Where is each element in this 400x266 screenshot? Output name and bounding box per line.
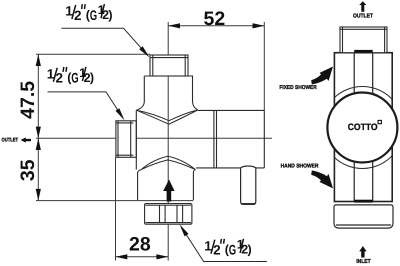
outlet flow arrow front view <box>21 137 32 142</box>
svg-text:35: 35 <box>17 159 39 181</box>
side view body <box>334 53 392 202</box>
fixed shower arrow <box>311 67 333 85</box>
svg-text:28: 28 <box>129 234 151 256</box>
svg-text:INLET: INLET <box>356 259 371 265</box>
seam tick top side view <box>354 50 373 53</box>
svg-text:52: 52 <box>204 8 226 30</box>
top hex nut front view <box>150 55 188 76</box>
outlet port front view <box>116 110 136 169</box>
COTTO registered square <box>378 120 381 123</box>
hand shower arrow <box>311 170 333 188</box>
lever bottom emphasis <box>241 203 255 205</box>
dimension 35 <box>37 138 39 200</box>
valve bonnet cap front view <box>136 76 197 110</box>
seam tick bottom side view <box>354 200 373 203</box>
knob trim ring side view <box>321 87 400 169</box>
lever front view <box>241 166 256 204</box>
knob face side view <box>327 93 397 163</box>
svg-text:OUTLET: OUTLET <box>353 13 373 20</box>
svg-text:OUTLET: OUTLET <box>2 138 19 144</box>
wire horizontal centerline front view <box>36 137 272 139</box>
wire vertical centerline front view <box>167 22 169 261</box>
side view top port <box>340 27 387 53</box>
dimension 28 <box>116 158 169 261</box>
body lower column front view <box>138 172 194 200</box>
svg-text:FIXED SHOWER: FIXED SHOWER <box>279 85 316 91</box>
svg-text:47.5: 47.5 <box>17 81 39 119</box>
inlet arrow side view <box>359 246 366 258</box>
outlet arrow side view <box>359 1 366 12</box>
bottom nut front view <box>145 204 192 225</box>
side view bottom nut <box>334 205 393 228</box>
dimension 52 <box>168 22 264 110</box>
body swag fillet curves top <box>136 110 197 124</box>
thread label 2 underline and leader <box>48 92 123 118</box>
thread label 3 underline and leader <box>182 229 267 262</box>
body bottom edge / 35 extension line <box>36 200 193 202</box>
svg-text:HAND SHOWER: HAND SHOWER <box>281 164 319 170</box>
inlet flow arrow front view <box>163 180 174 202</box>
dimension 47.5 <box>36 54 150 138</box>
handle block front view <box>196 110 264 167</box>
thread label 3 bottom <box>204 238 251 258</box>
thread label 2 middle <box>47 66 94 86</box>
body dome arch bottom <box>138 156 196 172</box>
svg-text:COTTO: COTTO <box>348 122 378 132</box>
thread label 1 top <box>65 3 112 23</box>
thread label 1 underline and leader <box>62 28 148 55</box>
